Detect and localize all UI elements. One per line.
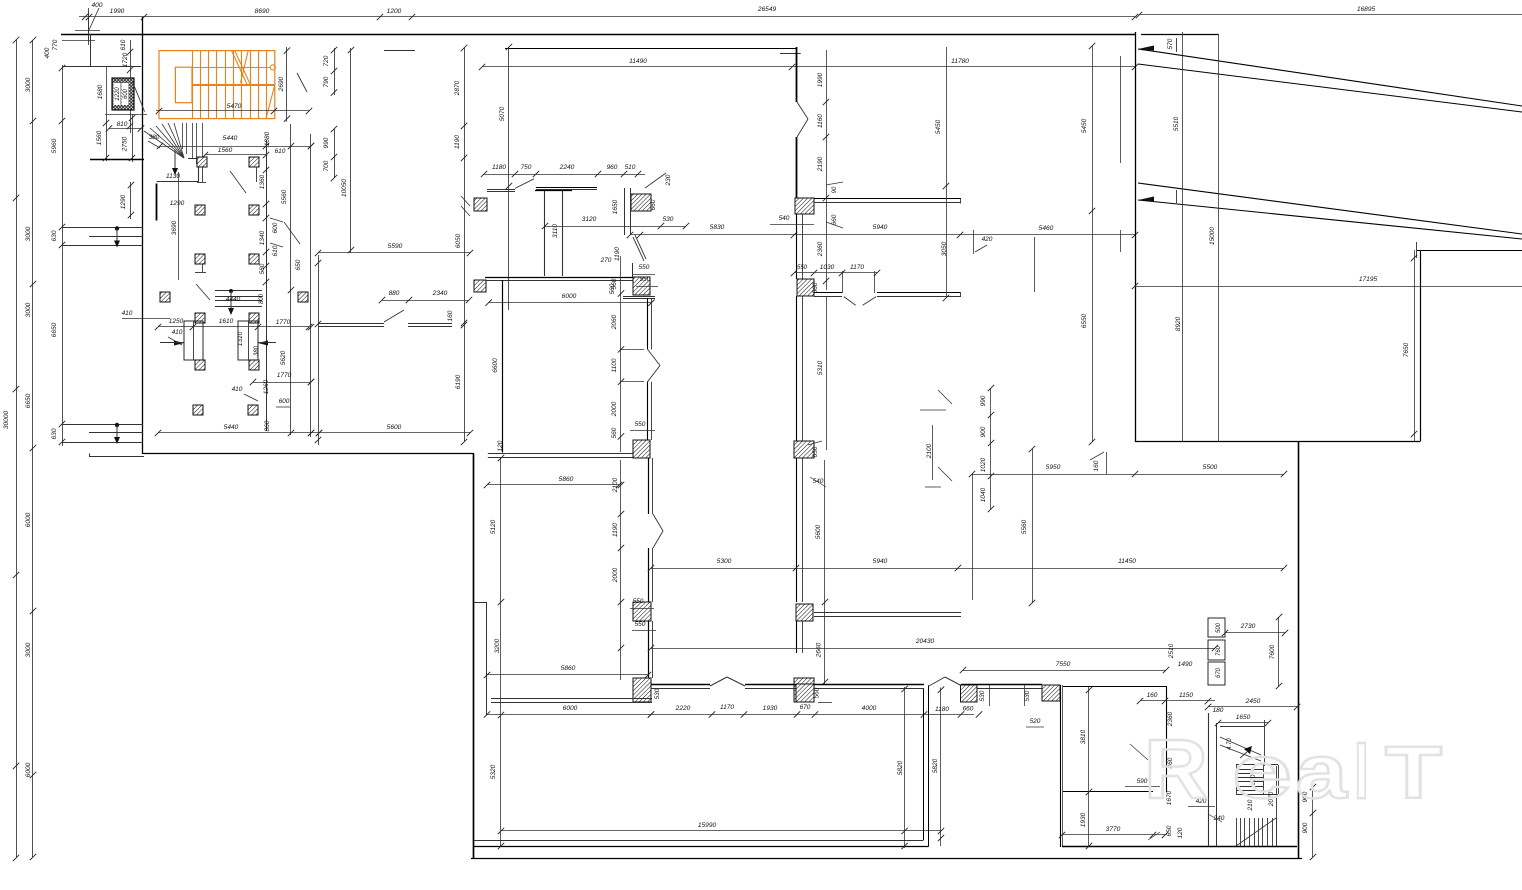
column wing 4 <box>249 205 259 215</box>
wing bottom wall <box>90 454 633 458</box>
arrow roof 1 <box>1138 38 1177 52</box>
wall stub x625 <box>625 188 631 235</box>
svg-text:17195: 17195 <box>1359 276 1378 283</box>
svg-text:7600: 7600 <box>1269 644 1276 659</box>
svg-text:90: 90 <box>832 186 838 193</box>
wall central 5 <box>797 458 803 602</box>
svg-text:5560: 5560 <box>1021 519 1028 534</box>
svg-text:1020: 1020 <box>980 457 987 472</box>
dim 2690 right of stairs <box>278 47 290 122</box>
wall bl top y686 seg1 <box>651 685 710 689</box>
column d3 <box>794 441 814 458</box>
wall br bottom <box>1062 846 1297 848</box>
dim 1290 left <box>120 182 134 219</box>
wall right section bottom <box>1135 441 1420 443</box>
stair br lower steps <box>1236 766 1277 846</box>
svg-text:6050: 6050 <box>455 233 462 248</box>
svg-text:610: 610 <box>120 39 127 50</box>
svg-text:230: 230 <box>665 174 672 186</box>
svg-text:8920: 8920 <box>1175 316 1182 331</box>
wing stubs <box>195 167 257 273</box>
svg-text:3110: 3110 <box>552 224 559 238</box>
wall y292 left <box>814 293 842 297</box>
svg-text:600: 600 <box>279 398 290 405</box>
svg-text:3690: 3690 <box>171 220 178 235</box>
svg-text:1030: 1030 <box>820 264 835 271</box>
svg-text:2660: 2660 <box>816 642 823 658</box>
svg-text:2100: 2100 <box>612 477 619 493</box>
label 650 d <box>808 441 822 457</box>
svg-text:5960: 5960 <box>51 138 58 153</box>
svg-text:270: 270 <box>600 257 612 264</box>
wing small dims right <box>259 167 302 285</box>
svg-text:5940: 5940 <box>873 558 888 565</box>
column wing 14 <box>248 405 258 415</box>
svg-text:a: a <box>1296 730 1348 815</box>
svg-text:600: 600 <box>123 88 129 99</box>
svg-text:11780: 11780 <box>951 58 969 65</box>
wall break jog <box>797 102 808 137</box>
svg-text:2340: 2340 <box>432 290 448 297</box>
dim x1092 <box>1081 43 1095 445</box>
labels stair br <box>1188 774 1275 822</box>
wall bl top y686 seg2 <box>745 685 796 689</box>
wall stub y297 <box>623 297 655 299</box>
svg-text:520: 520 <box>1030 718 1041 725</box>
column wing 7 <box>160 292 170 302</box>
svg-text:3000: 3000 <box>25 302 32 317</box>
svg-text:1180: 1180 <box>935 706 949 713</box>
labels br mid <box>1125 711 1174 805</box>
svg-text:900: 900 <box>980 426 987 437</box>
dim corridor lower <box>612 460 656 680</box>
svg-text:5830: 5830 <box>710 224 725 231</box>
svg-text:4440: 4440 <box>226 296 241 303</box>
svg-text:1560: 1560 <box>96 130 103 145</box>
wing dim x311 <box>308 134 314 437</box>
wall right top <box>1141 34 1219 36</box>
svg-text:6650: 6650 <box>25 393 32 408</box>
svg-text:1290: 1290 <box>170 200 185 207</box>
svg-text:1040: 1040 <box>980 487 987 502</box>
entrance west y227 <box>62 226 143 247</box>
column d5 <box>794 678 814 702</box>
svg-text:990: 990 <box>980 395 987 406</box>
svg-text:240: 240 <box>1213 815 1225 822</box>
svg-text:510: 510 <box>625 164 636 171</box>
svg-text:420: 420 <box>982 236 993 243</box>
svg-text:1680: 1680 <box>97 84 104 99</box>
svg-text:1160: 1160 <box>817 114 824 128</box>
svg-text:1190: 1190 <box>454 135 461 149</box>
svg-text:5120: 5120 <box>490 519 497 534</box>
svg-text:5450: 5450 <box>935 119 942 134</box>
dim 810 <box>106 81 145 132</box>
dim top 400 leader <box>75 2 103 42</box>
svg-text:3000: 3000 <box>25 77 32 92</box>
dim 2730 <box>1222 623 1288 636</box>
label 560 c <box>609 276 658 294</box>
svg-text:530: 530 <box>979 690 986 701</box>
svg-text:3810: 3810 <box>1080 729 1087 744</box>
svg-text:750: 750 <box>521 164 532 171</box>
wall br x1166 <box>1166 686 1168 792</box>
stub above column c0 <box>632 263 634 277</box>
column wing 8 <box>298 292 308 302</box>
door swing wing 3 <box>196 284 210 300</box>
svg-text:5310: 5310 <box>817 360 824 375</box>
svg-text:2690: 2690 <box>278 76 285 92</box>
svg-text:530: 530 <box>1024 690 1031 701</box>
dim y273 <box>791 264 880 276</box>
dim y648 20430 <box>648 638 1218 651</box>
dim x939 <box>932 687 944 847</box>
dim chain y174 <box>481 164 645 177</box>
break marks x940 <box>938 390 952 481</box>
svg-text:400: 400 <box>44 47 51 58</box>
svg-text:1560: 1560 <box>218 147 233 154</box>
svg-text:1080: 1080 <box>264 131 271 146</box>
dim x351 10650 <box>341 47 354 253</box>
shelf rects 2 <box>238 321 258 360</box>
dim 1560 wing <box>202 147 269 158</box>
wall bl west <box>473 454 475 860</box>
dim 1770 y382 <box>250 372 314 385</box>
dim chain x464 <box>454 45 467 445</box>
svg-text:550: 550 <box>639 264 650 271</box>
svg-text:16895: 16895 <box>1357 6 1376 13</box>
dim x1218 <box>1209 34 1219 442</box>
dim x1313 <box>1302 784 1316 860</box>
dim 5950 <box>969 464 1138 600</box>
column wing 1 <box>197 157 207 167</box>
svg-text:2450: 2450 <box>1245 698 1261 705</box>
svg-text:5450: 5450 <box>1081 118 1088 133</box>
wall x905 x925 <box>897 685 929 849</box>
wing dim x296 <box>280 124 294 436</box>
svg-text:2510: 2510 <box>1168 643 1175 659</box>
svg-text:960: 960 <box>607 164 618 171</box>
labels around c1 <box>612 199 674 223</box>
dim right of wing <box>264 126 337 181</box>
labels 270 1190 550 <box>600 247 655 275</box>
svg-text:5440: 5440 <box>224 424 239 431</box>
labels br left <box>1080 687 1092 849</box>
column c1 <box>631 194 651 211</box>
wall top second <box>505 49 801 54</box>
stair br arrow <box>1227 738 1252 758</box>
svg-text:1650: 1650 <box>612 199 619 214</box>
svg-text:1200: 1200 <box>387 8 402 15</box>
svg-text:160: 160 <box>1147 692 1158 699</box>
svg-text:1930: 1930 <box>763 705 778 712</box>
column g2 <box>1042 685 1060 701</box>
svg-text:120: 120 <box>497 440 504 451</box>
svg-text:5560: 5560 <box>281 189 288 204</box>
svg-text:630: 630 <box>51 428 58 439</box>
dim 5860 b <box>484 665 651 678</box>
column wing 3 <box>195 205 205 215</box>
svg-text:770: 770 <box>52 39 59 50</box>
svg-text:10050: 10050 <box>341 179 348 197</box>
dim 11490 <box>479 58 795 70</box>
svg-text:6600: 6600 <box>492 358 499 373</box>
dim 5600 <box>316 424 473 436</box>
shaft rects <box>1208 618 1225 685</box>
svg-text:5470: 5470 <box>227 103 242 110</box>
label 410 c <box>232 386 258 401</box>
svg-text:11490: 11490 <box>629 58 647 65</box>
roof diag 2a <box>1138 183 1522 234</box>
column wing 11 <box>195 360 205 370</box>
dim 11780 <box>792 58 1138 70</box>
label 410 a <box>168 329 183 345</box>
dim 5470 <box>156 103 312 114</box>
wall I-stem <box>535 190 572 276</box>
svg-text:3050: 3050 <box>941 241 948 256</box>
dim 15990 <box>498 822 944 834</box>
dim 1650 <box>1215 714 1271 726</box>
dim 880 2340 <box>379 290 472 321</box>
label 120 <box>497 440 504 451</box>
svg-text:7550: 7550 <box>1056 661 1071 668</box>
dim y235 main <box>627 224 1138 238</box>
svg-text:1340: 1340 <box>259 230 266 245</box>
dim 2510 1490 <box>1168 643 1193 668</box>
svg-text:2100: 2100 <box>926 443 933 459</box>
dim x1183 <box>1173 32 1183 442</box>
column c5 <box>633 602 651 621</box>
svg-text:7650: 7650 <box>1403 342 1410 357</box>
wall br x1061 <box>1061 685 1063 847</box>
wall hall west <box>492 280 503 453</box>
wall bottom outer <box>471 858 1302 860</box>
svg-text:1610: 1610 <box>219 318 234 325</box>
chain x933 2100 <box>920 410 946 487</box>
svg-text:1250: 1250 <box>169 318 184 325</box>
wall br east outer <box>1298 442 1300 860</box>
svg-text:380: 380 <box>149 134 160 141</box>
dim leftwing small top <box>44 12 133 133</box>
svg-text:6000: 6000 <box>563 705 578 712</box>
svg-text:1190: 1190 <box>614 247 621 261</box>
dim top right 16895 <box>1136 6 1522 18</box>
column c2 <box>474 198 487 211</box>
svg-text:5820: 5820 <box>897 760 904 775</box>
dim 7550 <box>960 661 1169 673</box>
wall central 2 <box>796 137 798 198</box>
dim 5860 a <box>484 476 622 488</box>
dim y714 6000 <box>484 705 654 718</box>
svg-text:1180: 1180 <box>492 164 506 171</box>
svg-text:1990: 1990 <box>110 8 125 15</box>
svg-text:650: 650 <box>812 446 819 457</box>
svg-text:5600: 5600 <box>815 524 822 539</box>
svg-text:550: 550 <box>635 621 646 628</box>
svg-text:1150: 1150 <box>1179 692 1193 699</box>
staircase orange <box>159 51 275 119</box>
door d <box>844 297 876 306</box>
svg-text:5510: 5510 <box>1173 116 1180 131</box>
svg-text:e: e <box>1232 730 1292 815</box>
svg-text:2190: 2190 <box>817 156 824 172</box>
stair br landing <box>1236 765 1279 795</box>
svg-text:8690: 8690 <box>255 8 270 15</box>
door y189 <box>515 179 534 189</box>
svg-text:2240: 2240 <box>559 164 575 171</box>
dim 5440 bottom <box>155 420 322 436</box>
svg-text:2870: 2870 <box>454 80 461 96</box>
break marks x464 <box>461 196 470 216</box>
column crosshatch <box>97 78 134 110</box>
svg-text:2360: 2360 <box>817 241 824 257</box>
wall central 4 <box>797 296 803 441</box>
svg-text:3000: 3000 <box>25 642 32 657</box>
svg-text:610: 610 <box>275 148 286 155</box>
svg-text:1650: 1650 <box>1236 714 1251 721</box>
door swing stair right <box>297 73 307 92</box>
wall y702 <box>491 699 652 703</box>
wall right section west <box>1135 32 1137 442</box>
label 520 <box>1026 718 1044 727</box>
svg-text:5070: 5070 <box>499 106 506 121</box>
dim top chain 26549 <box>79 6 1138 20</box>
svg-text:760: 760 <box>1216 645 1222 656</box>
dim right of wing upper <box>323 47 337 96</box>
stair br upper flight <box>1220 720 1265 766</box>
label 5600 d <box>815 460 832 703</box>
roof diag 2b <box>1138 200 1522 239</box>
svg-text:2220: 2220 <box>675 705 691 712</box>
svg-text:500: 500 <box>1216 622 1222 633</box>
dim x1035 <box>1034 237 1036 292</box>
dim 2450 <box>1205 698 1300 714</box>
dim 17195 <box>1132 276 1522 289</box>
svg-text:3770: 3770 <box>1106 826 1121 833</box>
svg-text:15990: 15990 <box>698 822 717 829</box>
wall notch y250 <box>1417 242 1522 258</box>
svg-text:2730: 2730 <box>1240 623 1256 630</box>
labels 530 g3 <box>979 685 1031 706</box>
svg-text:1930: 1930 <box>1080 812 1087 827</box>
column d4 <box>796 604 813 621</box>
wall central 6 <box>797 621 803 653</box>
svg-text:530: 530 <box>663 216 674 223</box>
watermark Realt <box>1144 722 1442 816</box>
door corridor <box>648 349 660 381</box>
svg-text:T: T <box>1385 731 1442 814</box>
dim x1032 5560 <box>1021 446 1035 606</box>
svg-text:5500: 5500 <box>1203 464 1218 471</box>
svg-text:1770: 1770 <box>277 372 292 379</box>
svg-text:6650: 6650 <box>51 322 58 337</box>
svg-text:5590: 5590 <box>388 243 403 250</box>
dim 5440 top <box>157 135 314 149</box>
dim 7600 <box>1269 614 1282 689</box>
svg-text:550: 550 <box>635 421 646 428</box>
svg-text:550: 550 <box>640 276 651 283</box>
stair br walls <box>1209 713 1217 846</box>
svg-text:790: 790 <box>323 76 330 87</box>
label 420 y240 <box>974 230 993 254</box>
svg-text:660: 660 <box>831 214 838 225</box>
svg-text:1170: 1170 <box>850 264 864 271</box>
label 160 e <box>1090 452 1107 474</box>
dim 3120 <box>542 216 689 229</box>
dim 5590 <box>315 243 473 256</box>
label 1130 <box>166 173 180 180</box>
wall right section east <box>1420 250 1422 442</box>
svg-text:160: 160 <box>1093 460 1100 471</box>
svg-text:610: 610 <box>272 245 279 256</box>
svg-text:990: 990 <box>323 137 330 148</box>
svg-text:4000: 4000 <box>862 705 877 712</box>
svg-text:5440: 5440 <box>223 135 238 142</box>
door bump 1 <box>710 677 745 686</box>
svg-text:1490: 1490 <box>1178 661 1193 668</box>
wall y325 w door <box>318 310 467 328</box>
svg-text:800: 800 <box>259 293 265 304</box>
svg-text:2000: 2000 <box>611 401 618 417</box>
dim x946 <box>935 47 949 301</box>
dim 6000 <box>485 293 654 306</box>
svg-text:720: 720 <box>323 55 330 66</box>
svg-text:5860: 5860 <box>559 476 574 483</box>
svg-text:550: 550 <box>797 265 808 271</box>
svg-text:1290: 1290 <box>120 194 127 209</box>
svg-text:670: 670 <box>800 704 811 711</box>
svg-text:600: 600 <box>272 222 279 233</box>
svg-text:660: 660 <box>650 199 657 210</box>
svg-text:R: R <box>1144 722 1208 816</box>
wall seg y50 <box>384 50 415 52</box>
svg-text:530: 530 <box>654 688 661 699</box>
svg-text:2060: 2060 <box>611 314 618 330</box>
svg-text:1770: 1770 <box>276 319 291 326</box>
svg-text:5620: 5620 <box>280 350 287 365</box>
arrows shelves <box>160 341 276 346</box>
svg-text:1720: 1720 <box>122 52 129 67</box>
column g3 <box>961 685 978 702</box>
svg-text:630: 630 <box>51 230 58 241</box>
dim y701 <box>1137 692 1215 704</box>
svg-text:2750: 2750 <box>122 136 129 152</box>
wall br y687 <box>1063 686 1167 688</box>
svg-text:380: 380 <box>254 345 260 356</box>
svg-text:410: 410 <box>172 329 183 336</box>
wall bl bottom <box>474 841 928 847</box>
svg-text:15000: 15000 <box>1209 227 1216 245</box>
label 1290b <box>170 172 185 280</box>
column d2 <box>797 279 814 296</box>
dim x621 <box>611 256 655 452</box>
roof diag 1b <box>1138 64 1522 112</box>
column wing 13 <box>193 405 203 415</box>
door swing wing 2 <box>284 222 300 244</box>
svg-text:560: 560 <box>812 282 819 293</box>
labels 1310/380 <box>237 331 260 356</box>
svg-text:2000: 2000 <box>612 567 619 583</box>
svg-text:l: l <box>1354 730 1369 815</box>
svg-text:3120: 3120 <box>582 216 597 223</box>
svg-text:1190: 1190 <box>612 523 619 537</box>
dim 3770 <box>1059 825 1184 840</box>
dim 1560/2750 <box>90 114 147 162</box>
svg-text:5600: 5600 <box>387 424 402 431</box>
svg-text:660: 660 <box>963 706 974 713</box>
column wing 10 <box>249 313 259 323</box>
wall br y792 <box>1063 791 1153 793</box>
